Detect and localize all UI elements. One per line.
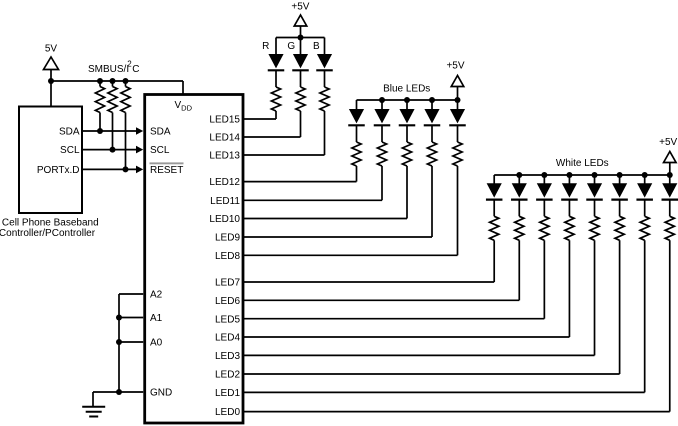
svg-text:R: R xyxy=(262,41,269,52)
svg-text:Cell Phone Baseband: Cell Phone Baseband xyxy=(2,218,99,229)
svg-text:LED3: LED3 xyxy=(215,351,240,362)
svg-text:PORTx.D: PORTx.D xyxy=(37,165,80,176)
svg-text:LED15: LED15 xyxy=(209,115,240,126)
svg-text:LED9: LED9 xyxy=(215,233,240,244)
svg-text:C: C xyxy=(132,64,139,75)
svg-text:Controller/PController: Controller/PController xyxy=(0,228,96,239)
svg-text:LED12: LED12 xyxy=(209,177,240,188)
svg-text:RESET: RESET xyxy=(150,165,183,176)
svg-text:SCL: SCL xyxy=(150,145,170,156)
svg-text:LED4: LED4 xyxy=(215,333,240,344)
svg-text:B: B xyxy=(313,41,320,52)
svg-text:LED6: LED6 xyxy=(215,296,240,307)
svg-text:SDA: SDA xyxy=(59,127,80,138)
svg-text:LED11: LED11 xyxy=(210,196,240,207)
svg-text:LED7: LED7 xyxy=(215,278,240,289)
svg-text:SMBUS/I: SMBUS/I xyxy=(88,64,129,75)
svg-text:LED2: LED2 xyxy=(215,370,240,381)
svg-text:SDA: SDA xyxy=(150,127,171,138)
svg-text:LED0: LED0 xyxy=(215,407,240,418)
svg-text:A0: A0 xyxy=(150,338,163,349)
svg-text:A1: A1 xyxy=(150,313,163,324)
svg-text:LED1: LED1 xyxy=(215,388,240,399)
svg-text:A2: A2 xyxy=(150,290,163,301)
svg-text:LED13: LED13 xyxy=(209,151,240,162)
svg-text:LED8: LED8 xyxy=(215,251,240,262)
svg-text:Blue LEDs: Blue LEDs xyxy=(383,83,430,94)
svg-text:+5V: +5V xyxy=(291,2,309,13)
svg-text:G: G xyxy=(287,41,295,52)
svg-text:5V: 5V xyxy=(45,44,58,55)
svg-text:LED5: LED5 xyxy=(215,314,240,325)
svg-text:GND: GND xyxy=(150,388,172,399)
svg-text:LED10: LED10 xyxy=(209,214,240,225)
svg-text:LED14: LED14 xyxy=(209,133,240,144)
svg-text:+5V: +5V xyxy=(659,137,677,148)
svg-text:White LEDs: White LEDs xyxy=(556,158,609,169)
svg-text:SCL: SCL xyxy=(60,145,80,156)
svg-text:+5V: +5V xyxy=(446,61,464,72)
